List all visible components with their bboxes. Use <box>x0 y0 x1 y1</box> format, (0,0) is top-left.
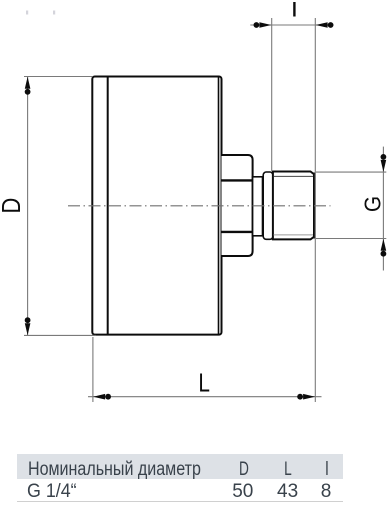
dimension l arrow pointing right <box>254 22 272 28</box>
hex nut <box>222 155 253 256</box>
dimension l extension line left <box>271 18 273 171</box>
dimension G arrow down <box>381 154 387 172</box>
table bottom rule <box>17 501 343 502</box>
dimension D extension line top <box>24 76 92 78</box>
table header column D <box>229 460 258 479</box>
gauge body rim line right <box>218 77 220 334</box>
dimension G arrow up <box>381 239 387 257</box>
thread minor diameter line top <box>274 175 314 177</box>
dimension l arrow pointing left <box>316 22 334 28</box>
dimension D extension line bottom <box>24 334 96 336</box>
dimension D arrow down <box>25 317 31 335</box>
dimension L arrow right <box>297 394 315 400</box>
faint speck left <box>26 11 28 15</box>
svg-text:D: D <box>0 198 26 214</box>
collar step <box>253 177 263 236</box>
table header band <box>17 454 343 479</box>
svg-text:L: L <box>198 368 210 397</box>
neck ring <box>263 172 273 239</box>
dimension L / l shared extension line right <box>314 18 316 402</box>
gauge body rim line left <box>107 77 109 334</box>
dimension D line <box>27 77 29 336</box>
table data L value 43 <box>268 482 308 501</box>
dimension L line <box>88 396 322 398</box>
table header column l <box>311 460 343 479</box>
dimension l line <box>250 24 332 26</box>
table header column L <box>273 460 302 479</box>
hex nut face line upper <box>222 179 253 181</box>
thread body <box>273 172 314 240</box>
dimension G extension line top <box>316 171 386 173</box>
dimension G line <box>382 147 384 271</box>
centerline <box>68 205 331 207</box>
table header text: Номинальный диаметр <box>28 460 201 479</box>
table data G 1/4" <box>27 482 77 501</box>
table data D value 50 <box>223 482 263 501</box>
faint speck right <box>53 11 55 15</box>
dimension L extension line left <box>92 337 94 402</box>
dimension G extension line bottom <box>316 238 386 240</box>
hex nut face line lower <box>222 231 253 233</box>
gauge body case <box>92 77 221 335</box>
dimension D arrow up <box>25 77 31 95</box>
dimension l label <box>293 2 295 17</box>
thread minor diameter line bottom <box>274 234 314 236</box>
thread right edge <box>313 173 316 239</box>
svg-text:G: G <box>359 196 385 212</box>
table data l value 8 <box>306 482 346 501</box>
dimension L arrow left <box>93 394 111 400</box>
